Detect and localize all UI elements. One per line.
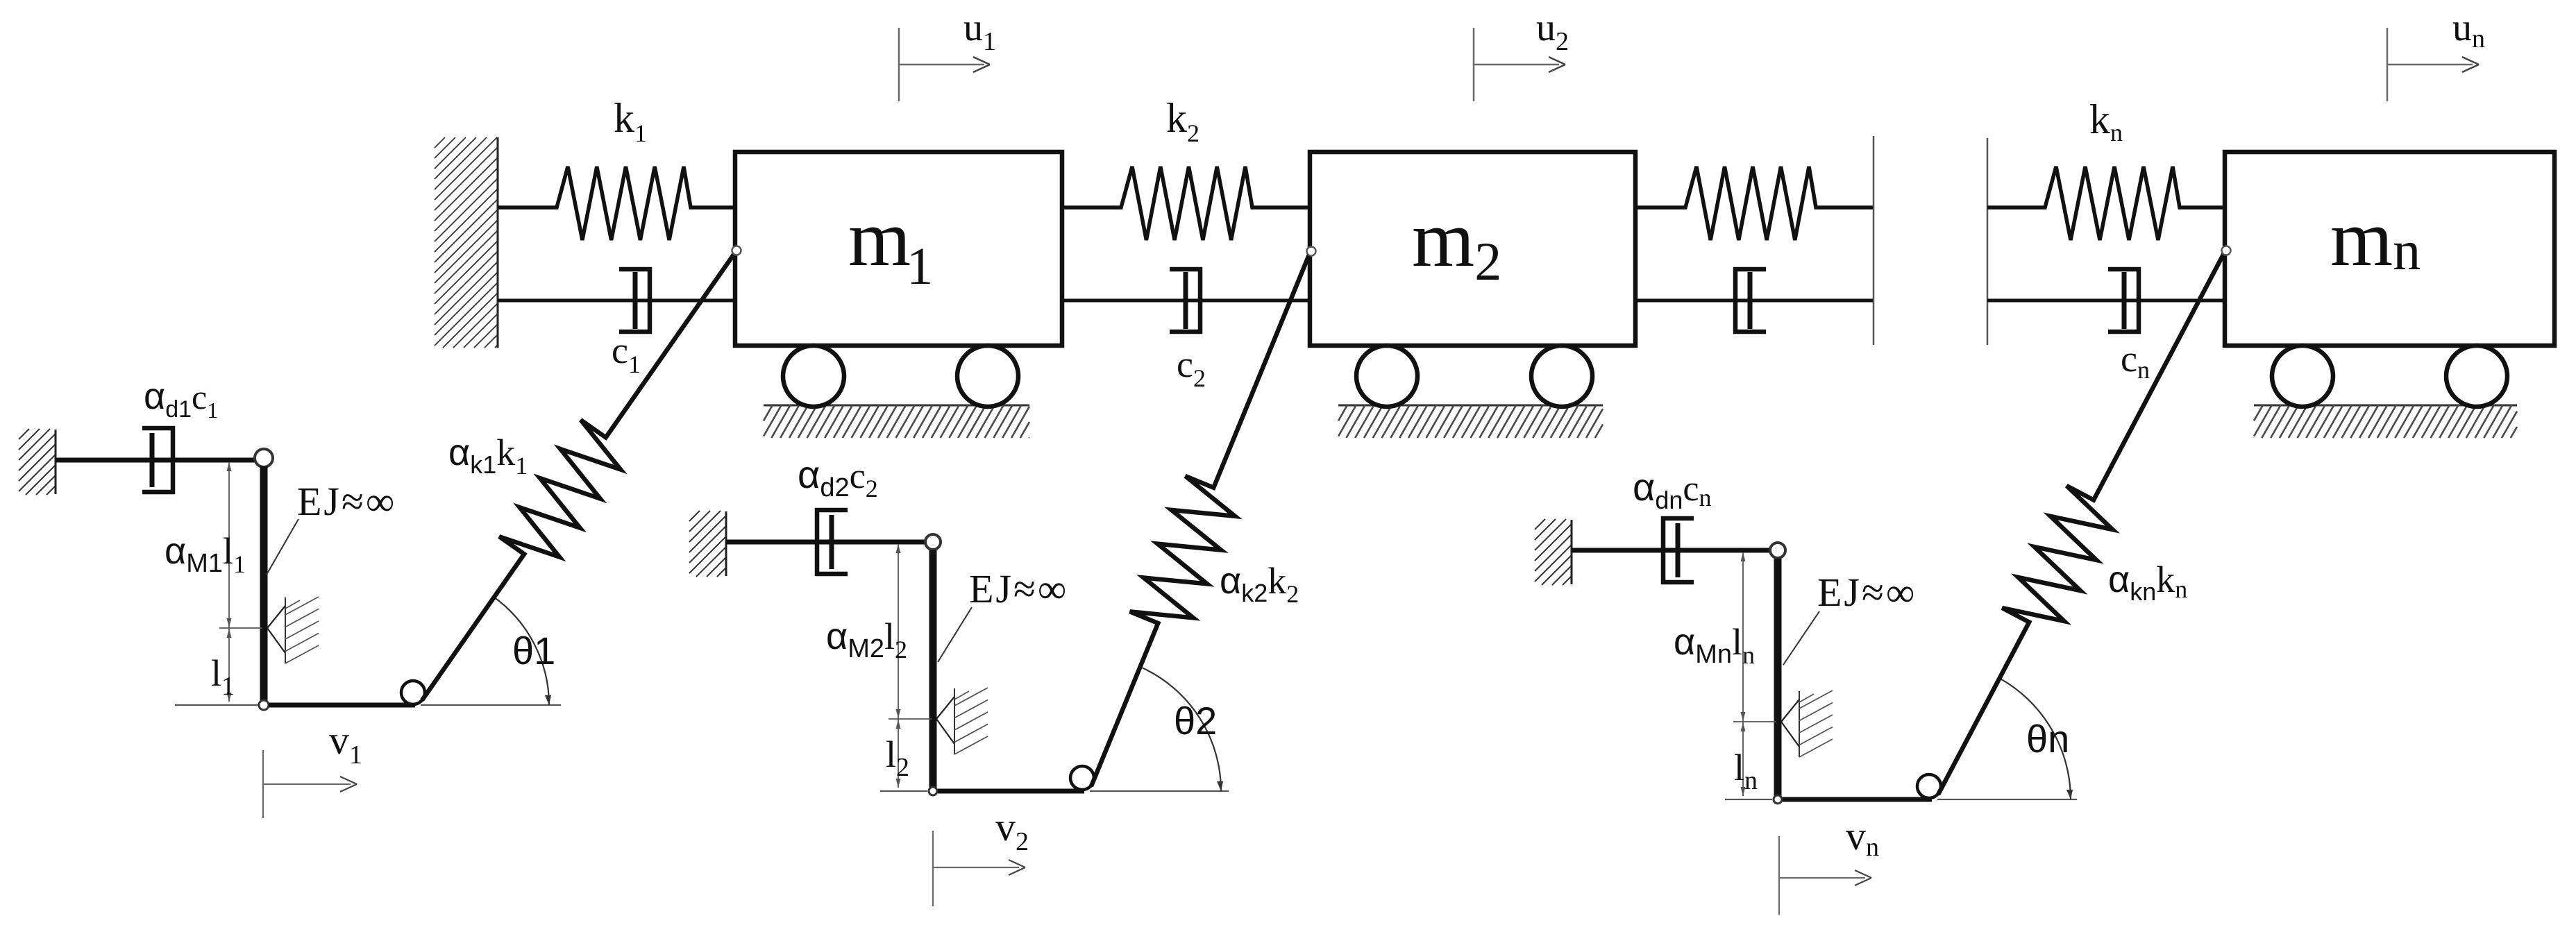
wheel mn left [2272, 346, 2333, 407]
mass m1 block [735, 152, 1062, 346]
top pin (pendulum 2) [925, 534, 941, 550]
wheel m1 right [957, 346, 1018, 407]
spring k2 [1062, 167, 1310, 240]
ground under m2 [1338, 405, 1603, 438]
bottom pin (pendulum 2) [929, 787, 937, 795]
svg-text:EJ≈∞: EJ≈∞ [297, 479, 396, 524]
leader line EJ (pendulum 1) [267, 519, 298, 575]
bottom pin (pendulum 3) [1774, 795, 1782, 804]
wall (fixed support, top left) [435, 137, 498, 348]
damper αd1c1 [142, 428, 173, 492]
damper αd2c2 [817, 510, 848, 574]
spring k1 [498, 167, 735, 240]
wheel m1 left [783, 346, 844, 407]
ground under mn [2254, 405, 2517, 438]
mass m2 block [1310, 152, 1635, 346]
svg-text:θ1: θ1 [512, 629, 555, 672]
mid support (pendulum 1) [267, 597, 319, 663]
damper αd3c3 [1663, 518, 1694, 582]
roller (pendulum 1) [401, 681, 425, 704]
svg-text:EJ≈∞: EJ≈∞ [1817, 570, 1917, 615]
rigid bar EJ (pendulum 2) [929, 550, 937, 789]
angle arc theta1 [492, 596, 551, 705]
spring between m2 and cut line [1635, 167, 1874, 240]
baseline extension (pendulum 1) [421, 704, 561, 706]
rod to damper (pendulum 1) [56, 458, 255, 463]
damper cn [1987, 269, 2225, 332]
arrow v2 [933, 831, 1025, 906]
wheel mn right [2446, 346, 2507, 407]
roller (pendulum 2) [1070, 766, 1094, 790]
baseline extension (pendulum 2) [1090, 790, 1229, 792]
roller (pendulum 3) [1917, 774, 1941, 798]
pivot on mn [2222, 246, 2231, 255]
mid support (pendulum 2) [936, 688, 988, 754]
pivot on m1 [732, 246, 741, 255]
base bar (pendulum 1) [269, 703, 415, 708]
top pin (pendulum 3) [1770, 543, 1785, 558]
leader line EJ (pendulum 2) [938, 607, 972, 662]
mid support (pendulum 3) [1781, 690, 1833, 757]
arrow u1 [899, 28, 990, 101]
dimension line (pendulum 1) [219, 462, 262, 702]
pivot on m2 [1307, 247, 1316, 256]
angle arc theta3 [1999, 678, 2073, 799]
cut line after m2 [1873, 136, 1875, 345]
arrow vn [1779, 836, 1871, 915]
diagonal spring αk3k3 (pendulum 3) [1938, 251, 2225, 795]
base bar (pendulum 3) [1783, 797, 1932, 802]
rigid bar EJ (pendulum 3) [1774, 559, 1782, 797]
leader line EJ (pendulum n) [1783, 611, 1819, 665]
spring kn [1987, 167, 2225, 240]
dimension line (pendulum 2) [889, 544, 932, 788]
arrow un [2387, 28, 2479, 101]
damper between m2 and cut line [1635, 269, 1874, 332]
bottom pin (pendulum 1) [259, 700, 269, 710]
mass mn block [2225, 152, 2554, 346]
base bar (pendulum 2) [938, 789, 1084, 794]
baseline extension (pendulum 3) [1937, 799, 2077, 800]
wall (fixed support, pendulum 2) [689, 511, 726, 577]
damper c2 [1062, 269, 1310, 332]
diagonal spring αk1k1 (pendulum 1) [422, 251, 736, 700]
ground under m1 [764, 405, 1029, 438]
svg-text:θn: θn [2026, 717, 2069, 761]
svg-text:EJ≈∞: EJ≈∞ [969, 566, 1068, 611]
angle arc theta2 [1143, 668, 1223, 791]
wheel m2 right [1531, 346, 1592, 407]
damper c1 [498, 269, 735, 332]
rigid bar EJ (pendulum 1) [260, 466, 268, 703]
dimension line (pendulum 3) [1733, 552, 1776, 796]
rod to damper (pendulum 2) [726, 540, 925, 545]
arrow u2 [1474, 28, 1565, 101]
wall (fixed support, pendulum 1) [19, 429, 56, 495]
rod to damper (pendulum 3) [1572, 548, 1769, 553]
wheel m2 left [1356, 346, 1417, 407]
top pin (pendulum 1) [255, 449, 273, 467]
wall (fixed support, pendulum 3) [1535, 519, 1572, 585]
cut line before kn [1987, 138, 1989, 345]
arrow v1 [263, 750, 357, 818]
svg-text:θ2: θ2 [1174, 699, 1217, 743]
diagonal spring αk2k2 (pendulum 2) [1091, 251, 1311, 786]
